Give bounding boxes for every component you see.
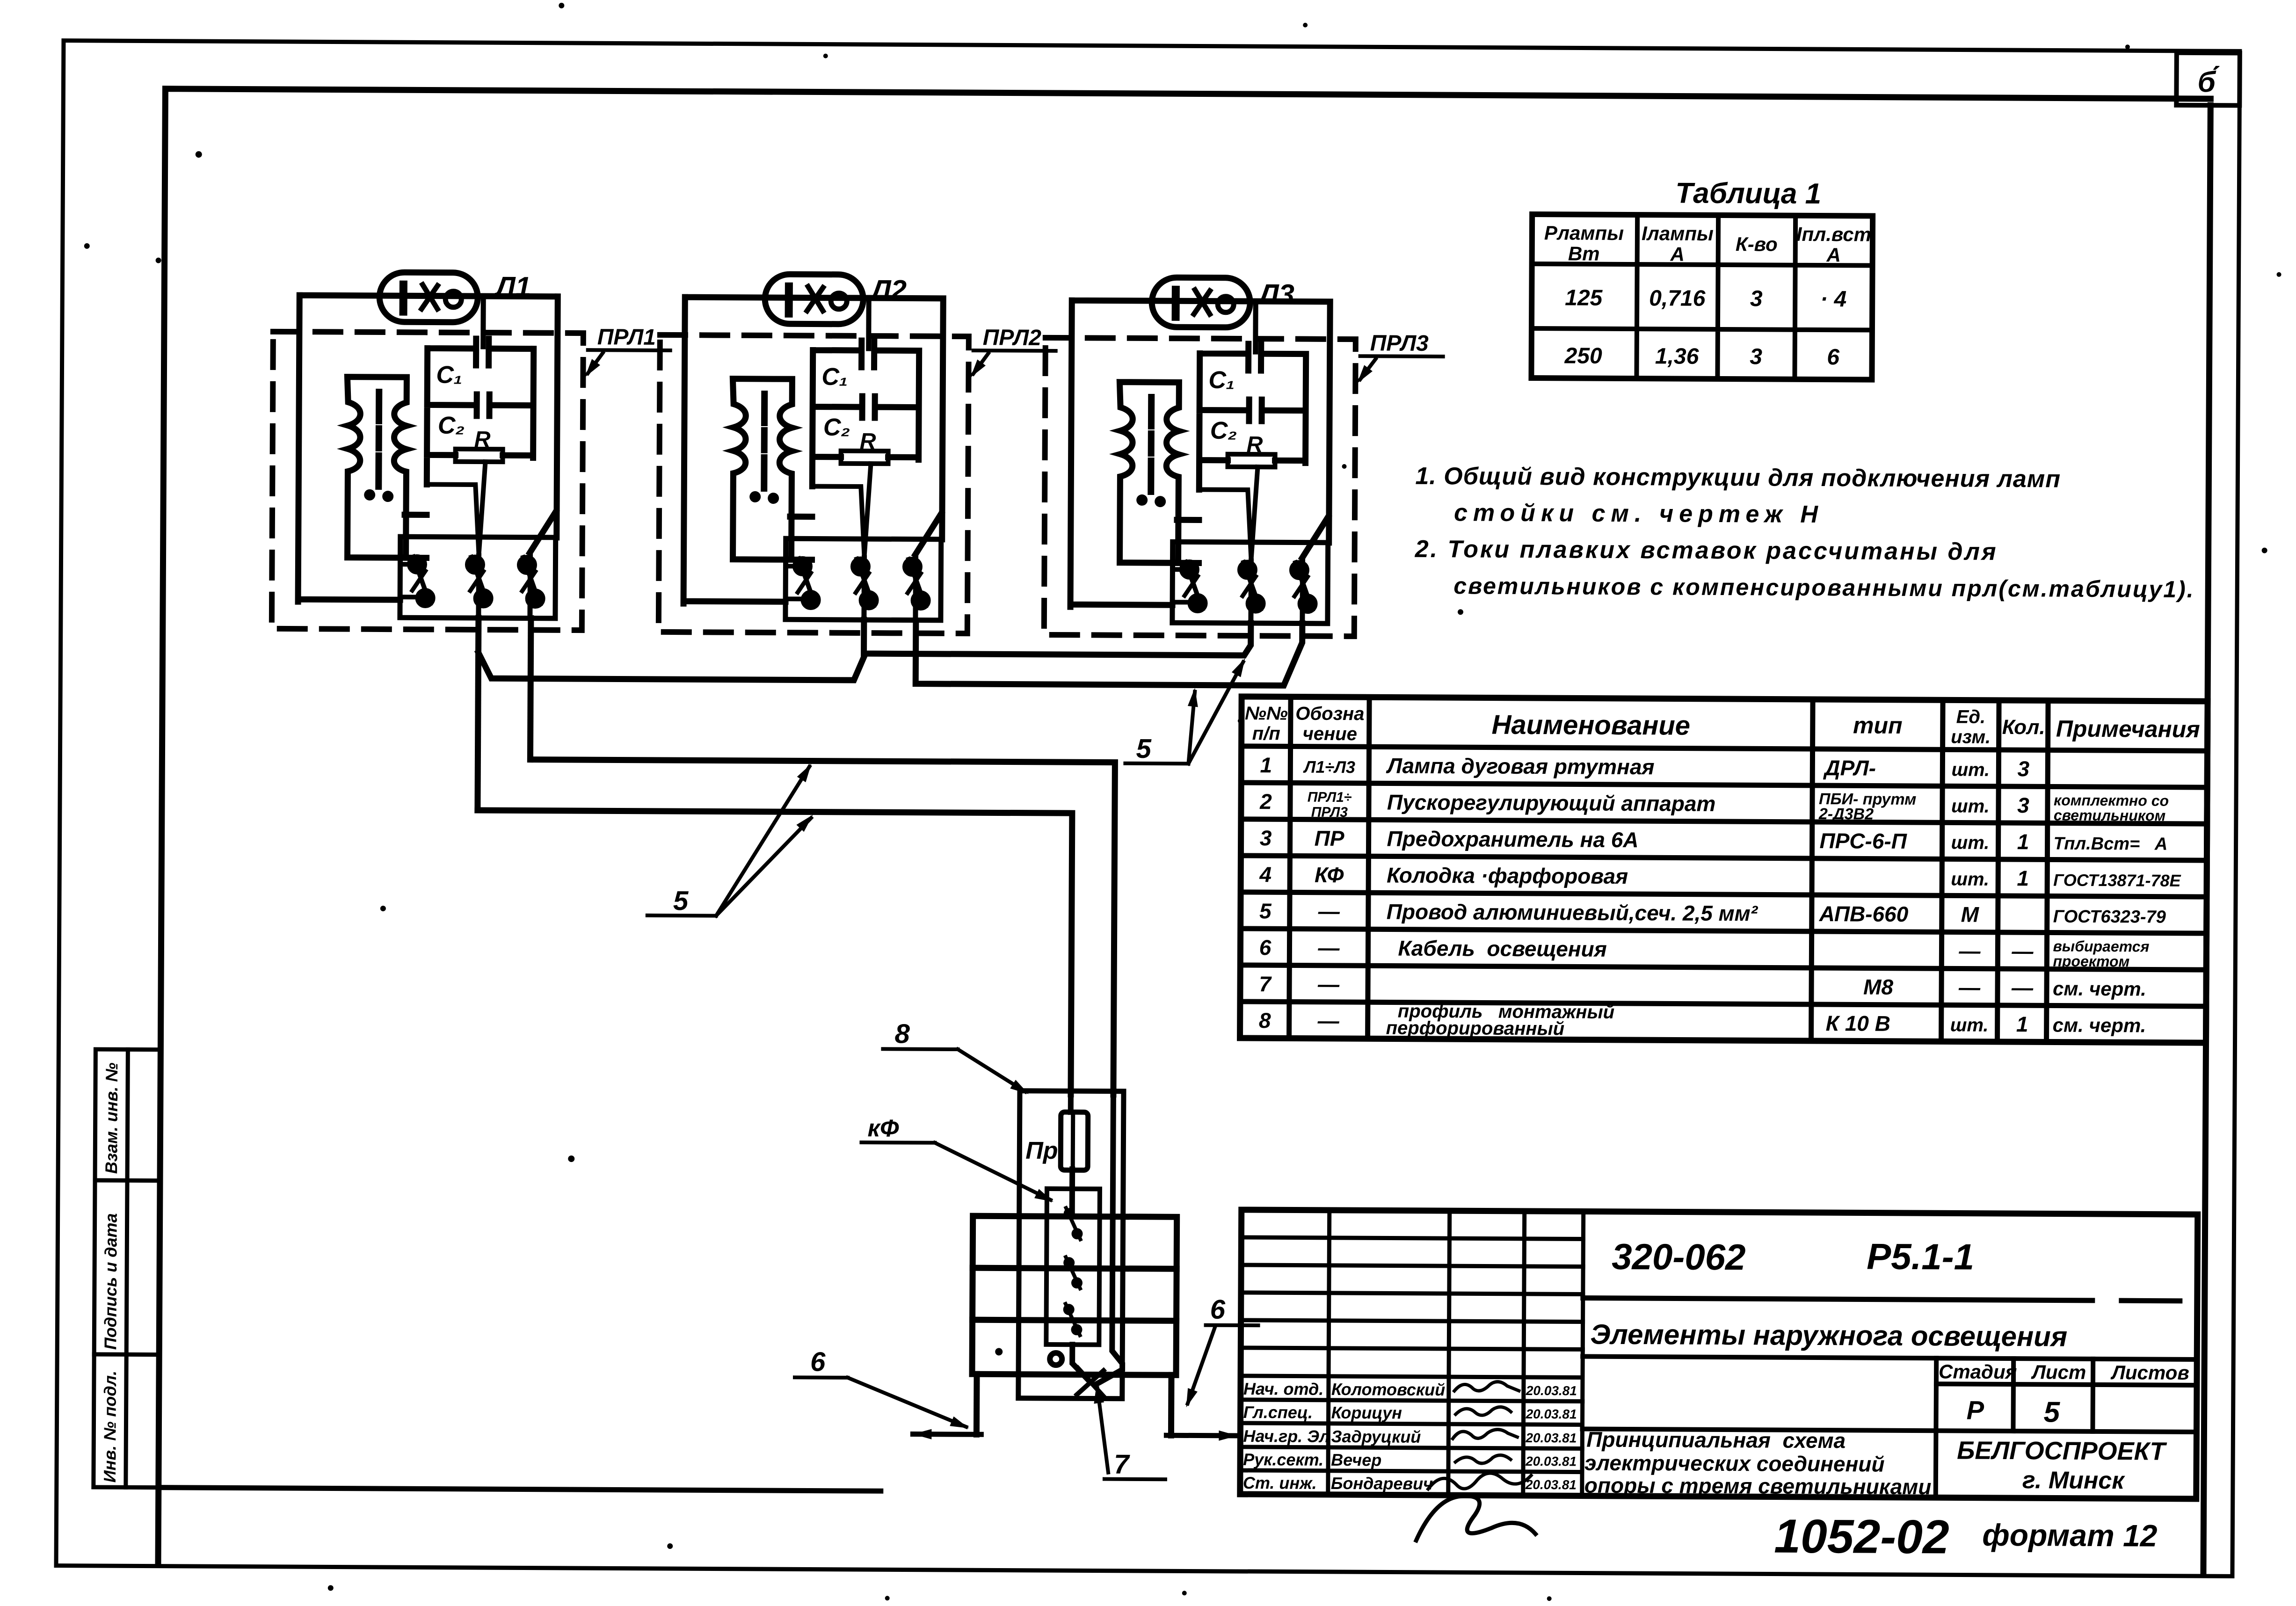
pole left leg [974, 1374, 980, 1434]
svg-text:Лист: Лист [2031, 1361, 2086, 1383]
Table 1 header texts [1544, 222, 1872, 266]
callout 8 with leader [883, 1018, 1032, 1098]
svg-text:светильников с компенсированны: светильников с компенсированными прл(см.… [1453, 573, 2195, 603]
wire: circuit1 terminal3 drop through bus B to bus C [530, 618, 530, 760]
svg-text:Элементы наружнога освещения: Элементы наружнога освещения [1590, 1319, 2067, 1352]
svg-text:проектом: проектом [2053, 952, 2129, 970]
svg-text:шт.: шт. [1951, 759, 1990, 780]
svg-text:Взам. инв. №: Взам. инв. № [102, 1062, 121, 1174]
svg-text:Нач.гр. Эл: Нач.гр. Эл [1243, 1426, 1330, 1446]
svg-text:20.03.81: 20.03.81 [1525, 1454, 1577, 1469]
svg-text:ПРЛ2: ПРЛ2 [983, 325, 1042, 350]
svg-text:· 4: · 4 [1820, 287, 1846, 312]
svg-text:ПРЛ3: ПРЛ3 [1311, 805, 1348, 820]
svg-text:—: — [1317, 1009, 1340, 1033]
svg-text:Ед.: Ед. [1956, 706, 1986, 727]
wire: bus B (circuit1 t3 to circuit2 t2) [478, 653, 864, 680]
wire: bus C from circuit1 t3 down to pole right conductor [529, 760, 1115, 1095]
ballast dashed box PRL2 [659, 335, 969, 633]
svg-text:3: 3 [2017, 756, 2029, 781]
svg-text:2: 2 [1259, 789, 1272, 814]
svg-text:Тпл.Вст= А: Тпл.Вст= А [2053, 834, 2167, 854]
svg-text:1: 1 [2016, 1012, 2028, 1036]
title block signature grid [1240, 1210, 1584, 1496]
KF terminal 3 [1063, 1304, 1082, 1335]
svg-text:ПРЛ1÷: ПРЛ1÷ [1308, 790, 1352, 805]
svg-text:КФ: КФ [1315, 863, 1344, 887]
svg-text:20.03.81: 20.03.81 [1526, 1407, 1577, 1422]
svg-text:5: 5 [1259, 899, 1272, 923]
svg-text:Л1÷Л3: Л1÷Л3 [1303, 757, 1355, 777]
svg-text:Л1: Л1 [494, 271, 531, 302]
svg-text:шт.: шт. [1950, 1015, 1989, 1035]
svg-text:перфорированный: перфорированный [1386, 1017, 1565, 1039]
svg-text:1: 1 [1260, 753, 1272, 777]
svg-text:—: — [1958, 938, 1981, 963]
svg-text:Пр: Пр [1025, 1137, 1058, 1164]
callout KF with leader [861, 1115, 1056, 1206]
svg-text:Рук.сект.: Рук.сект. [1243, 1450, 1323, 1469]
corner box top-right [2176, 53, 2240, 106]
svg-text:А: А [1826, 244, 1841, 266]
svg-text:Провод алюминиевый,сеч. 2,5 мм: Провод алюминиевый,сеч. 2,5 мм² [1387, 899, 1758, 925]
parts row 3: fuse [1260, 826, 2168, 854]
callout PRL2 with leader [966, 325, 1056, 381]
parts row 8: profile [1259, 1000, 2146, 1042]
svg-text:Ст. инж.: Ст. инж. [1243, 1473, 1317, 1493]
svg-text:ПРЛ3: ПРЛ3 [1370, 331, 1429, 356]
callout PRL3 with leader [1353, 331, 1443, 386]
callout PRL1 with leader [581, 325, 670, 380]
svg-text:Кабель освещения: Кабель освещения [1398, 936, 1607, 961]
Table 1 data row 125 [1565, 285, 1846, 312]
svg-text:формат 12: формат 12 [1982, 1518, 2158, 1553]
svg-text:Подпись и дата: Подпись и дата [101, 1213, 120, 1350]
svg-text:—: — [1958, 975, 1981, 999]
svg-text:№№: №№ [1245, 703, 1288, 724]
svg-text:Р5.1-1: Р5.1-1 [1867, 1236, 1974, 1278]
bolted joint X mark [1077, 1368, 1104, 1396]
svg-text:Рлампы: Рлампы [1544, 222, 1624, 244]
fuse Pr body [1061, 1112, 1088, 1170]
ballast dashed box PRL1 [272, 332, 583, 630]
svg-text:Таблица 1: Таблица 1 [1675, 177, 1821, 210]
svg-text:Листов: Листов [2110, 1361, 2189, 1384]
svg-text:Инв. № подл.: Инв. № подл. [100, 1371, 120, 1482]
Table 1 data row 250 [1564, 343, 1840, 370]
svg-text:—: — [1318, 899, 1340, 923]
svg-text:Предохранитель на 6А: Предохранитель на 6А [1387, 826, 1639, 852]
svg-text:1: 1 [2017, 866, 2029, 890]
wire: bus A (circuit2 t3 to circuit3 t3) [915, 622, 1302, 686]
svg-text:1,36: 1,36 [1655, 344, 1699, 369]
svg-text:2-Д3В2: 2-Д3В2 [1818, 805, 1874, 823]
svg-text:шт.: шт. [1951, 832, 1990, 853]
svg-text:2. Токи плавких вставок рассчи: 2. Токи плавких вставок рассчитаны для [1415, 536, 1998, 566]
svg-text:7: 7 [1114, 1449, 1130, 1480]
KF terminal 1 [1063, 1208, 1083, 1239]
svg-text:Л3: Л3 [1257, 278, 1294, 310]
svg-text:стойки см. чертеж Н: стойки см. чертеж Н [1454, 499, 1824, 528]
svg-text:7: 7 [1259, 972, 1272, 996]
svg-text:Iпл.вст: Iпл.вст [1796, 223, 1871, 246]
svg-text:6: 6 [1259, 935, 1272, 959]
porcelain terminal block KF [1046, 1189, 1100, 1345]
svg-text:—: — [2011, 939, 2034, 963]
right conductor along KF block to bottom joint [1097, 1094, 1124, 1383]
svg-text:Колотовский: Колотовский [1331, 1380, 1445, 1399]
svg-text:опоры с тремя светильниками: опоры с тремя светильниками [1584, 1473, 1932, 1499]
left foot arrowhead [913, 1429, 931, 1439]
callout 5 (right) pointing at link wires [1125, 655, 1250, 764]
svg-text:Лампа дуговая ртутная: Лампа дуговая ртутная [1386, 753, 1654, 779]
svg-text:20.03.81: 20.03.81 [1525, 1431, 1577, 1446]
svg-text:К 10 В: К 10 В [1826, 1011, 1890, 1036]
svg-text:—: — [1317, 972, 1340, 996]
svg-text:Корицун: Корицун [1331, 1403, 1402, 1423]
svg-text:5: 5 [1136, 734, 1151, 764]
svg-text:Гл.спец.: Гл.спец. [1243, 1403, 1313, 1422]
callout 6 (right) with leader [1181, 1294, 1258, 1410]
parts row 7: bolt [1259, 972, 2146, 1000]
parts row 4: porcelain block [1259, 862, 2181, 891]
svg-text:20.03.81: 20.03.81 [1525, 1477, 1577, 1492]
svg-text:4: 4 [1259, 862, 1272, 887]
parts list table grid [1240, 697, 2208, 1043]
right foot arrowhead [1219, 1431, 1237, 1441]
svg-text:ПРЛ1: ПРЛ1 [597, 325, 656, 350]
svg-text:3: 3 [1750, 344, 1762, 369]
svg-text:Вт: Вт [1568, 242, 1600, 264]
svg-text:кФ: кФ [867, 1115, 899, 1142]
luminaire unit 3 (lamp L3) [1070, 277, 1330, 624]
svg-text:1: 1 [2017, 829, 2029, 854]
svg-text:см. черт.: см. черт. [2053, 977, 2146, 1000]
svg-text:см. черт.: см. черт. [2053, 1014, 2146, 1036]
svg-text:1. Общий вид конструкции для п: 1. Общий вид конструкции для подключения… [1415, 463, 2061, 493]
signature row dates [1525, 1383, 1577, 1492]
svg-text:Задруцкий: Задруцкий [1331, 1427, 1421, 1446]
wire: bus D from circuit1 t2 down to pole left conductor [476, 810, 1072, 1094]
svg-text:изм.: изм. [1951, 727, 1991, 747]
svg-text:250: 250 [1564, 343, 1603, 368]
svg-text:светильником: светильником [2054, 807, 2166, 824]
svg-text:Стадия: Стадия [1939, 1360, 2017, 1383]
svg-text:—: — [1317, 936, 1340, 960]
svg-text:шт.: шт. [1951, 796, 1990, 816]
wire: circuit1 terminal2 drop to bus D [478, 618, 479, 810]
svg-text:5: 5 [673, 886, 689, 916]
svg-text:Нач. отд.: Нач. отд. [1243, 1379, 1324, 1399]
left conductor through fuse down to KF terminal 1 [1070, 1094, 1073, 1214]
svg-text:тип: тип [1853, 712, 1903, 739]
parts row 1: lamp [1260, 753, 2029, 781]
svg-text:М: М [1961, 902, 1980, 926]
Table 1 grid [1531, 214, 1873, 380]
parts list header [1245, 703, 2200, 748]
svg-text:п/п: п/п [1252, 723, 1280, 744]
title block outer box [1240, 1210, 2198, 1499]
svg-text:М8: М8 [1863, 974, 1894, 999]
svg-text:6: 6 [1827, 345, 1839, 370]
svg-text:электрических соединений: электрических соединений [1584, 1451, 1885, 1476]
KF bottom lead to bolted joint [1072, 1344, 1087, 1379]
svg-text:шт.: шт. [1951, 869, 1989, 889]
svg-text:чение: чение [1302, 724, 1357, 745]
pole right foot with arrow [1166, 1433, 1237, 1439]
signature rows names [1243, 1379, 1445, 1493]
svg-text:Iлампы: Iлампы [1642, 222, 1714, 245]
left vertical stamp strip [94, 1049, 161, 1488]
svg-text:8: 8 [1259, 1008, 1271, 1032]
svg-text:Л2: Л2 [870, 274, 907, 305]
svg-text:8: 8 [894, 1018, 910, 1049]
svg-text:320-062: 320-062 [1612, 1236, 1746, 1278]
parts row 6: cable [1259, 934, 2150, 970]
KF terminal 2 [1063, 1257, 1083, 1288]
svg-text:3: 3 [2017, 793, 2029, 817]
parts row 2: ballast [1259, 787, 2169, 824]
fuse inner wire [1071, 1116, 1075, 1166]
fuse enclosure box on pole [1018, 1091, 1124, 1399]
svg-text:ГОСТ13871-78Е: ГОСТ13871-78Е [2053, 870, 2181, 890]
svg-text:Вечер: Вечер [1331, 1450, 1381, 1470]
svg-text:6: 6 [1210, 1294, 1226, 1325]
callout 6 (left) with leader [794, 1346, 971, 1433]
signature scribbles [1416, 1381, 1536, 1541]
callout 5 (left) pointing at supply wires [647, 760, 817, 917]
KF bottom eyelet [1050, 1353, 1062, 1365]
svg-text:Бондаревич: Бондаревич [1331, 1474, 1433, 1493]
svg-text:Обозна: Обозна [1295, 704, 1364, 725]
svg-text:К-во: К-во [1736, 233, 1778, 255]
svg-text:Примечания: Примечания [2056, 715, 2200, 742]
svg-text:г. Минск: г. Минск [2022, 1467, 2126, 1494]
luminaire unit 1 (lamp L1) [298, 272, 558, 618]
pole lattice frame [972, 1216, 1177, 1375]
luminaire unit 2 (lamp L2) [683, 274, 944, 620]
wire: bus W1 (circuit2 t2 to circuit3 t2) [864, 620, 1251, 655]
svg-text:ПРС-6-П: ПРС-6-П [1819, 828, 1907, 853]
svg-text:АПВ-660: АПВ-660 [1819, 901, 1909, 926]
svg-text:1052-02: 1052-02 [1774, 1510, 1949, 1564]
svg-text:Пускорегулирующий аппарат: Пускорегулирующий аппарат [1387, 790, 1716, 815]
svg-text:Колодка ·фарфоровая: Колодка ·фарфоровая [1387, 863, 1628, 888]
svg-text:125: 125 [1565, 285, 1603, 310]
svg-text:БЕЛГОСПРОЕКТ: БЕЛГОСПРОЕКТ [1957, 1436, 2167, 1465]
ground line at sheet bottom [159, 1488, 881, 1491]
callout 7 with leader [1091, 1384, 1166, 1480]
svg-text:3: 3 [1750, 286, 1763, 311]
svg-text:ПР: ПР [1315, 826, 1344, 850]
pole left foot with arrow [913, 1432, 981, 1437]
svg-text:А: А [1670, 243, 1685, 265]
ballast dashed box PRL3 [1044, 338, 1356, 636]
svg-text:ГОСТ6323-79: ГОСТ6323-79 [2053, 907, 2166, 927]
svg-text:6: 6 [810, 1346, 826, 1377]
svg-text:3: 3 [1260, 826, 1272, 850]
pole lattice rungs [973, 1268, 1177, 1321]
svg-text:—: — [2011, 975, 2034, 1000]
svg-text:Наименование: Наименование [1491, 710, 1690, 741]
svg-text:20.03.81: 20.03.81 [1526, 1383, 1577, 1398]
svg-text:Кол.: Кол. [2002, 716, 2045, 739]
svg-text:Р: Р [1967, 1395, 1984, 1425]
svg-text:ДРЛ-: ДРЛ- [1823, 756, 1876, 780]
parts row 5: wire [1259, 899, 2166, 927]
pole right leg [1168, 1375, 1175, 1435]
svg-text:5: 5 [2043, 1396, 2060, 1428]
svg-text:0,716: 0,716 [1649, 286, 1706, 311]
svg-text:Принципиальная схема: Принципиальная схема [1586, 1427, 1846, 1453]
title block right part dividers [1582, 1298, 2197, 1499]
